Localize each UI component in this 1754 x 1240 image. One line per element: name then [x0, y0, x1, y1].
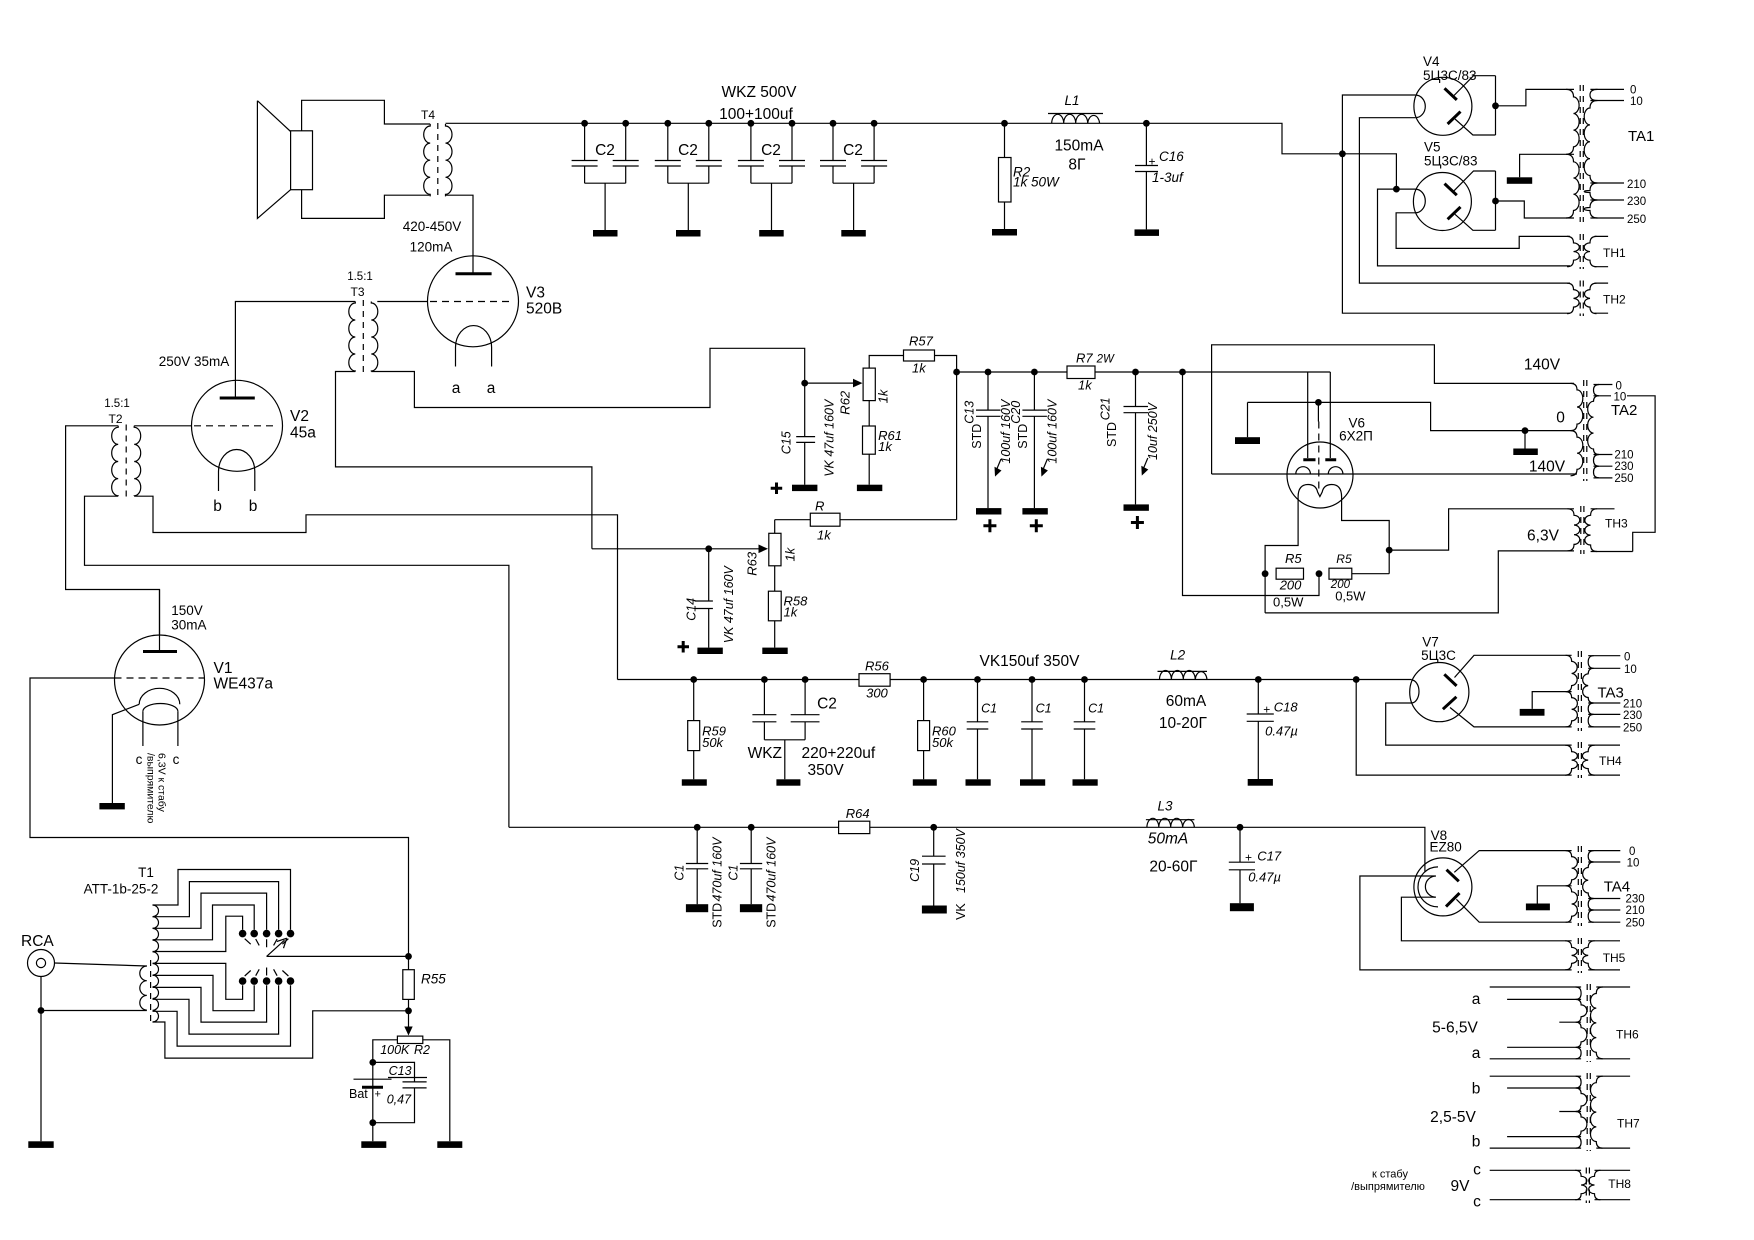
svg-text:a: a	[1472, 991, 1481, 1008]
wire R62 top to R57	[869, 356, 903, 369]
svg-text:C1: C1	[1036, 701, 1052, 715]
svg-text:210: 210	[1623, 699, 1642, 711]
svg-text:L1: L1	[1064, 93, 1079, 108]
wire arrow to potentiometer R2	[408, 1011, 410, 1027]
svg-text:c: c	[173, 752, 180, 767]
capacitor C1 (a)	[966, 676, 998, 786]
svg-text:2,5-5V: 2,5-5V	[1430, 1109, 1476, 1126]
svg-text:STD: STD	[970, 424, 984, 449]
svg-text:Bat: Bat	[349, 1087, 368, 1101]
wire T1 tap loop 1	[153, 870, 291, 930]
svg-text:C13: C13	[389, 1064, 412, 1078]
svg-text:C1: C1	[981, 701, 997, 715]
node V5 cathode junction	[1393, 186, 1400, 193]
resistor R60 50k	[913, 676, 957, 786]
svg-text:b: b	[1472, 1134, 1481, 1151]
node battery bottom junction	[369, 1119, 376, 1126]
wire V5 cathode bottom to TH1 top	[1396, 213, 1570, 249]
svg-text:T3: T3	[350, 285, 364, 299]
wire junction arrow to R62 wiper	[805, 382, 855, 384]
svg-text:120mA: 120mA	[410, 240, 453, 255]
wire TA4 centre tap ground	[1537, 886, 1571, 904]
svg-text:230: 230	[1627, 196, 1646, 208]
svg-text:C19: C19	[908, 859, 922, 882]
svg-text:C1: C1	[672, 865, 686, 881]
svg-text:STD: STD	[1016, 424, 1030, 449]
svg-text:0.47µ: 0.47µ	[1248, 870, 1281, 885]
svg-text:200: 200	[1279, 578, 1302, 593]
svg-text:R62: R62	[838, 390, 853, 415]
transformer TA3	[1566, 651, 1624, 731]
svg-text:0: 0	[1629, 846, 1635, 858]
svg-text:0.47µ: 0.47µ	[1265, 724, 1298, 739]
svg-text:520B: 520B	[526, 301, 562, 318]
wire T1 tap loop 6	[153, 963, 243, 999]
wire TH5 bottom to V8 heater	[1360, 876, 1572, 970]
svg-text:1k: 1k	[817, 528, 832, 543]
svg-text:210: 210	[1614, 450, 1633, 462]
potentiometer R2 100K	[380, 1036, 430, 1057]
resistor R56 300	[859, 659, 890, 701]
transformer TA2	[1571, 380, 1638, 481]
svg-text:c: c	[1473, 1162, 1481, 1179]
svg-text:a: a	[452, 380, 461, 397]
ground pot left	[361, 1141, 386, 1148]
transformer TA4	[1566, 846, 1631, 926]
svg-text:140V: 140V	[1529, 459, 1566, 476]
svg-text:TH1: TH1	[1603, 246, 1626, 260]
svg-text:C20: C20	[1009, 401, 1023, 424]
inductor L2	[1158, 648, 1208, 733]
svg-text:TH7: TH7	[1617, 1117, 1640, 1131]
svg-text:250V 35mA: 250V 35mA	[159, 354, 230, 369]
svg-text:50k: 50k	[702, 735, 724, 750]
wire C14 junction left	[592, 548, 709, 550]
svg-text:ATT-1b-25-2: ATT-1b-25-2	[84, 882, 159, 897]
svg-text:2W: 2W	[1096, 354, 1115, 366]
svg-text:210: 210	[1627, 179, 1646, 191]
svg-text:C2: C2	[843, 142, 863, 159]
wire T1 tap loop 10	[153, 985, 291, 1046]
capacitor C1 (b)	[1020, 676, 1052, 786]
svg-text:1.5:1: 1.5:1	[104, 398, 130, 410]
svg-text:1k: 1k	[912, 360, 927, 375]
wire V4 cathode bottom to TH2 top	[1359, 118, 1570, 283]
svg-text:TA3: TA3	[1598, 685, 1624, 702]
svg-text:250: 250	[1623, 723, 1642, 735]
capacitor C1 STD 470uf 160V (b)	[726, 824, 778, 928]
wire R64 rail	[509, 827, 1425, 872]
svg-text:0,5W: 0,5W	[1273, 595, 1304, 610]
svg-text:R5: R5	[1336, 552, 1352, 566]
svg-text:TH4: TH4	[1599, 754, 1622, 768]
svg-text:C18: C18	[1274, 700, 1299, 715]
capacitor C17 0.47µ	[1229, 824, 1282, 911]
node C15 junction	[801, 380, 808, 387]
svg-text:R5: R5	[1285, 551, 1302, 566]
svg-text:TA2: TA2	[1611, 402, 1637, 419]
wire T1 tap loop 3	[153, 893, 267, 930]
svg-text:150mA: 150mA	[1054, 138, 1104, 155]
transformer T4	[421, 108, 452, 198]
inductor L1	[1048, 93, 1104, 174]
svg-text:+: +	[375, 1089, 381, 1101]
resistor R5 (left) 200 0,5W	[1273, 551, 1304, 610]
svg-text:20-60Γ: 20-60Γ	[1149, 859, 1198, 876]
speaker LS	[257, 101, 312, 219]
svg-text:RCA: RCA	[21, 933, 54, 950]
svg-text:V1: V1	[214, 660, 233, 677]
svg-text:b: b	[1472, 1081, 1481, 1098]
resistor R57 1k	[904, 334, 935, 376]
svg-text:b: b	[249, 498, 258, 515]
svg-text:C1: C1	[1088, 701, 1104, 715]
svg-text:250: 250	[1627, 214, 1646, 226]
svg-text:VK: VK	[954, 903, 968, 920]
transformer TH4	[1565, 742, 1622, 778]
svg-text:0,47: 0,47	[387, 1093, 412, 1107]
svg-text:1k 50W: 1k 50W	[1013, 175, 1060, 190]
wire R5 left to TH3 bottom	[1265, 551, 1574, 613]
speaker enclosure wire	[302, 100, 431, 218]
svg-text:45a: 45a	[290, 425, 316, 442]
svg-text:100K: 100K	[380, 1043, 410, 1057]
wire T4 secondary bottom to V3 plate	[446, 195, 474, 256]
connector RCA	[21, 933, 147, 1148]
wire T3 primary top to V2 plate	[235, 302, 355, 398]
capacitor C16 1-3uf	[1135, 120, 1185, 236]
svg-text:TA1: TA1	[1628, 128, 1654, 145]
resistor R7 1k 2W	[1067, 351, 1115, 393]
node R57 rail junction	[953, 369, 960, 376]
svg-text:140V: 140V	[1524, 357, 1561, 374]
svg-text:C15: C15	[780, 431, 794, 454]
transformer T2	[104, 398, 141, 498]
wire box to TA2 primary top	[1212, 345, 1574, 474]
svg-text:C2: C2	[595, 142, 615, 159]
node switch contacts upper	[239, 930, 295, 947]
svg-text:300: 300	[866, 686, 888, 701]
wire T2 primary top to V1 plate	[66, 426, 160, 634]
capacitor C2 (c)	[738, 120, 805, 237]
svg-text:TH6: TH6	[1616, 1028, 1639, 1042]
svg-text:50k: 50k	[932, 735, 954, 750]
svg-text:V5: V5	[1424, 140, 1441, 155]
svg-text:+: +	[1263, 703, 1270, 717]
svg-text:9V: 9V	[1451, 1178, 1471, 1195]
svg-text:R2: R2	[414, 1043, 430, 1057]
svg-text:C13: C13	[963, 401, 977, 424]
svg-text:STD: STD	[765, 903, 779, 928]
svg-text:210: 210	[1626, 905, 1645, 917]
capacitor C21 STD 10uf 250V	[1099, 369, 1161, 529]
inductor L3	[1146, 799, 1198, 876]
resistor R61 1k	[857, 401, 902, 492]
svg-text:c: c	[1473, 1194, 1481, 1211]
TA2 secondary taps	[1594, 385, 1656, 552]
wire T1 tap loop 7	[153, 975, 255, 1010]
svg-text:150uf 350V: 150uf 350V	[954, 827, 968, 893]
wire V2 grid to T2	[134, 425, 192, 427]
transformer TH5	[1565, 938, 1626, 973]
node R5 left junction	[1262, 570, 1269, 577]
svg-text:WE437a: WE437a	[214, 676, 274, 693]
node TA2 centre tap ground junction	[1522, 427, 1529, 434]
wire T1 tap loop 8	[153, 985, 267, 1022]
transformer T1 secondary winding	[153, 905, 159, 1022]
svg-text:5Ц3С/83: 5Ц3С/83	[1424, 154, 1478, 169]
node V6 centre junction	[1315, 399, 1322, 406]
transformer TH2	[1567, 281, 1626, 317]
svg-text:c: c	[136, 752, 143, 767]
svg-text:230: 230	[1614, 461, 1633, 473]
svg-text:230: 230	[1626, 894, 1645, 906]
capacitor C14 VK 47uf 160V	[678, 549, 737, 654]
svg-text:1k: 1k	[878, 439, 893, 454]
capacitor C13 0,47	[373, 1062, 427, 1122]
svg-text:EZ80: EZ80	[1430, 840, 1462, 855]
wire T1 tap loop 9	[153, 985, 279, 1034]
tube V3 520B	[428, 256, 563, 397]
wire T2 secondary bottom to R row	[134, 496, 617, 679]
svg-text:R: R	[815, 499, 824, 514]
wire junction to V4 cathode top	[1342, 95, 1570, 313]
capacitor C18 0.47µ	[1247, 676, 1299, 786]
ground V6 left	[1247, 402, 1249, 437]
svg-text:+: +	[1245, 851, 1252, 865]
svg-text:C17: C17	[1257, 849, 1282, 864]
svg-text:220+220uf: 220+220uf	[802, 745, 876, 762]
svg-text:R57: R57	[909, 334, 934, 349]
tube V8 EZ80	[1414, 828, 1572, 922]
svg-text:R7: R7	[1076, 351, 1093, 366]
svg-text:L2: L2	[1170, 648, 1186, 663]
node switch contacts lower	[239, 968, 295, 985]
TA1 secondary taps	[1590, 89, 1624, 218]
svg-text:R56: R56	[865, 659, 890, 674]
svg-text:250: 250	[1626, 918, 1645, 930]
capacitor C20 STD 100uf 160V	[1009, 369, 1060, 533]
svg-text:250: 250	[1614, 473, 1633, 485]
svg-text:WKZ: WKZ	[748, 745, 782, 762]
resistor R59 50k	[682, 676, 726, 786]
capacitor C13 STD 100uf 160V	[963, 369, 1014, 533]
svg-text:100uf 160V: 100uf 160V	[1046, 398, 1060, 464]
svg-text:/выпрямителю: /выпрямителю	[1351, 1181, 1425, 1193]
wire pot right branch to ground	[423, 1040, 450, 1142]
wire V6 heater right leg to R5 right	[1342, 497, 1390, 574]
transformer T3	[347, 271, 378, 373]
svg-text:1k: 1k	[876, 388, 891, 403]
node R5 centre junction	[1316, 570, 1323, 577]
wire R56 filter rail	[618, 679, 1412, 681]
svg-text:T1: T1	[138, 865, 154, 880]
node C14 junction	[705, 545, 712, 552]
tube V5 5Ц3С/83	[1396, 140, 1499, 231]
svg-text:100+100uf: 100+100uf	[719, 106, 793, 123]
wire TH5 top to V8 heater	[1401, 897, 1571, 941]
capacitor C1 STD 470uf 160V (a)	[672, 824, 724, 928]
tube V2 45a	[192, 380, 317, 515]
wire junction to TH4 bottom	[1356, 680, 1571, 776]
tube V4 5Ц3С/83	[1414, 54, 1499, 135]
svg-text:150V: 150V	[171, 603, 203, 618]
wire T1 wiper output	[267, 955, 409, 957]
transformer TA1	[1566, 85, 1654, 222]
svg-text:C1: C1	[726, 865, 740, 881]
wire V1 grid to R55	[30, 678, 409, 956]
svg-text:420-450V: 420-450V	[403, 219, 462, 234]
wire R row to R63 top	[774, 520, 776, 534]
wire T1 winding bottom to R55 bottom	[153, 1011, 409, 1058]
svg-text:R64: R64	[846, 806, 870, 821]
wire B+ top rail	[446, 123, 1343, 154]
wire rail down to R5 centre	[1183, 372, 1320, 596]
node battery top junction	[369, 1059, 376, 1066]
svg-text:10: 10	[1624, 664, 1637, 676]
svg-text:TH8: TH8	[1608, 1177, 1631, 1191]
svg-text:470uf 160V: 470uf 160V	[711, 836, 725, 902]
svg-text:6Х2П: 6Х2П	[1339, 429, 1373, 444]
capacitor C19 VK 150uf 350V	[908, 824, 968, 920]
capacitor C2 WKZ 220+220uf 350V	[748, 676, 876, 786]
svg-text:1k: 1k	[1078, 377, 1093, 392]
wire V6 heater left leg to R5 left	[1265, 497, 1298, 613]
battery Bat	[349, 1079, 392, 1101]
ground TA1 tap	[1507, 177, 1532, 184]
svg-text:0: 0	[1630, 85, 1636, 97]
resistor R62 1k	[838, 368, 891, 415]
svg-text:50mA: 50mA	[1148, 831, 1189, 848]
svg-text:V2: V2	[290, 408, 309, 425]
svg-text:C16: C16	[1159, 149, 1184, 164]
node heater junction	[1386, 547, 1393, 554]
svg-text:STD: STD	[711, 903, 725, 928]
svg-text:a: a	[487, 380, 496, 397]
wire junction arrow to R63 wiper	[709, 548, 760, 550]
svg-text:6,3V: 6,3V	[1527, 528, 1560, 545]
svg-text:0: 0	[1556, 410, 1565, 427]
svg-text:60mA: 60mA	[1166, 693, 1207, 710]
svg-text:0,5W: 0,5W	[1335, 589, 1366, 604]
svg-text:1.5:1: 1.5:1	[347, 271, 373, 283]
svg-text:10-20Γ: 10-20Γ	[1159, 715, 1208, 732]
svg-text:30mA: 30mA	[171, 618, 206, 633]
svg-text:C2: C2	[761, 142, 781, 159]
wire TA1 centre tap to ground	[1520, 154, 1574, 177]
svg-text:b: b	[213, 498, 222, 515]
transformer TH3	[1568, 506, 1633, 554]
svg-text:350V: 350V	[808, 762, 845, 779]
wire V5 cathode junction to TH1 bottom	[1378, 189, 1571, 266]
svg-text:6,3V к стабу: 6,3V к стабу	[156, 753, 168, 813]
capacitor C1 (c)	[1073, 676, 1105, 786]
wire V4 anode bracket to TA1 top	[1496, 89, 1575, 105]
wire TA3 centre tap ground	[1532, 692, 1571, 709]
wiper arrow	[267, 938, 287, 956]
svg-text:470uf 160V: 470uf 160V	[765, 836, 779, 902]
wire V3 grid to T3	[377, 301, 428, 303]
wire R5 right to TH3 top	[1352, 509, 1574, 574]
svg-text:230: 230	[1623, 710, 1642, 722]
svg-text:8Γ: 8Γ	[1068, 157, 1086, 174]
svg-text:1k: 1k	[784, 605, 799, 620]
resistor R64	[839, 806, 870, 834]
transformer TH6	[1432, 984, 1639, 1062]
resistor R63 1k	[744, 533, 797, 575]
svg-text:L3: L3	[1158, 799, 1174, 814]
wire filter rail 372	[957, 371, 1331, 373]
svg-text:a: a	[1472, 1045, 1481, 1062]
wire pot left branch	[373, 1040, 398, 1142]
svg-text:10: 10	[1630, 96, 1643, 108]
resistor R58 1k	[762, 566, 808, 654]
ground TA2 centre tap	[1524, 431, 1526, 449]
wire T1 tap loop 5	[153, 916, 243, 951]
TA3 secondary taps	[1588, 656, 1620, 727]
svg-text:V4: V4	[1423, 54, 1440, 69]
node R55 top junction	[405, 953, 412, 960]
wire V7 cathode bottom to TH4 top	[1386, 703, 1572, 745]
svg-text:C2: C2	[817, 696, 837, 713]
resistor R2 1k 50W	[992, 120, 1060, 236]
resistor R 1k	[775, 499, 957, 543]
node B+ junction	[1339, 150, 1346, 157]
capacitor C15 VK 47uf 160V	[771, 383, 837, 494]
wire R57 right to rail	[935, 356, 957, 520]
svg-text:T4: T4	[421, 108, 435, 122]
svg-text:VK 47uf 160V: VK 47uf 160V	[722, 564, 736, 643]
svg-text:VK 47uf 160V: VK 47uf 160V	[823, 398, 837, 477]
svg-text:к стабу: к стабу	[1372, 1169, 1408, 1181]
svg-text:V3: V3	[526, 285, 545, 302]
transformer TH8	[1451, 1162, 1632, 1211]
node R55 bottom junction	[405, 1007, 412, 1014]
tube V7 5Ц3С	[1410, 635, 1572, 727]
svg-text:R63: R63	[744, 551, 759, 576]
svg-text:C14: C14	[685, 598, 699, 621]
wire T1 tap loop 4	[153, 905, 255, 940]
svg-text:5Ц3С: 5Ц3С	[1421, 648, 1456, 663]
svg-text:1-3uf: 1-3uf	[1152, 170, 1184, 185]
node V7 junction	[1353, 676, 1360, 683]
wire T1 tap loop 2	[153, 882, 279, 930]
capacitor C2 (b)	[655, 120, 722, 237]
wire T3 secondary bottom to C15 junction	[371, 348, 804, 407]
TA4 secondary taps	[1588, 851, 1620, 923]
resistor R5 (right) 200 0,5W	[1329, 552, 1366, 604]
node rail to heater-balance junction	[1179, 369, 1186, 376]
wire V6 cathode common top	[1248, 402, 1575, 430]
resistor R55	[403, 956, 446, 1010]
wire T2 primary bottom long rail	[85, 496, 509, 827]
tube V6 6Х2П	[1212, 372, 1577, 508]
svg-text:1k: 1k	[782, 546, 797, 561]
transformer T1 primary	[140, 966, 147, 1010]
capacitor C2 (a)	[572, 120, 639, 237]
svg-text:/выпрямителю: /выпрямителю	[145, 753, 157, 824]
svg-text:+: +	[1149, 155, 1156, 169]
svg-text:TH3: TH3	[1605, 517, 1628, 531]
svg-text:TH2: TH2	[1603, 293, 1626, 307]
svg-text:VK150uf 350V: VK150uf 350V	[980, 653, 1081, 670]
transformer TH1	[1567, 234, 1626, 269]
svg-text:STD: STD	[1105, 422, 1119, 447]
wire V5 anode bracket to TA1 bottom	[1496, 201, 1575, 218]
transformer TH7	[1430, 1073, 1640, 1151]
wire rail to V5 cathode	[1342, 154, 1396, 189]
svg-text:0: 0	[1624, 651, 1630, 663]
